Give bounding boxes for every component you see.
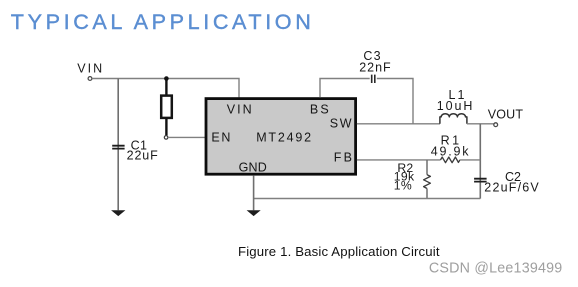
wire FB [357, 159, 441, 161]
wire C3 to SW node [377, 79, 413, 124]
capacitor C1 [112, 146, 124, 149]
resistor R2 [424, 175, 431, 189]
svg-text:1%: 1% [394, 179, 412, 193]
svg-text:22nF: 22nF [359, 61, 392, 75]
svg-text:VIN: VIN [77, 61, 104, 75]
wire ground rail [254, 198, 481, 200]
wire GND pin [253, 176, 255, 211]
junction dot resistor top [164, 76, 169, 81]
wire R1 to output node [460, 159, 480, 161]
capacitor C2 [474, 179, 487, 182]
svg-text:FB: FB [334, 151, 354, 165]
svg-text:49.9k: 49.9k [431, 144, 471, 158]
svg-text:TYPICAL APPLICATION: TYPICAL APPLICATION [11, 9, 315, 34]
node EN terminal [164, 136, 168, 140]
svg-text:10uH: 10uH [437, 99, 474, 113]
wire BS to C3 [320, 79, 370, 98]
svg-text:MT2492: MT2492 [256, 130, 313, 144]
inductor L1 [440, 114, 467, 124]
svg-text:22uF/6V: 22uF/6V [484, 180, 540, 194]
svg-text:Figure 1. Basic Application Ci: Figure 1. Basic Application Circuit [238, 244, 440, 259]
svg-text:EN: EN [211, 130, 232, 144]
node VOUT terminal [494, 123, 498, 127]
resistor (EN pull-up) [161, 79, 172, 136]
capacitor C3 [372, 75, 375, 83]
svg-text:VOUT: VOUT [488, 108, 524, 122]
wire output node vertical [479, 124, 481, 199]
wire EN [168, 136, 206, 138]
wire L1 to VOUT [467, 123, 494, 125]
svg-text:22uF: 22uF [127, 149, 159, 163]
wire VIN rail to VIN pin [92, 79, 239, 98]
ground under C1 [111, 210, 125, 216]
svg-text:GND: GND [239, 160, 267, 174]
svg-text:CSDN @Lee139499: CSDN @Lee139499 [429, 261, 563, 277]
wire R2 top lead [426, 160, 428, 175]
wire R2 bottom lead [426, 189, 428, 199]
wire C1 branch [117, 79, 119, 211]
svg-text:BS: BS [310, 102, 331, 116]
ground under GND pin [247, 210, 261, 216]
svg-text:SW: SW [330, 116, 353, 130]
IC U1 MT2492 body [206, 99, 356, 175]
resistor R1 [441, 157, 460, 163]
svg-text:VIN: VIN [227, 102, 254, 116]
node VIN terminal [88, 77, 92, 81]
wire SW [357, 123, 440, 125]
